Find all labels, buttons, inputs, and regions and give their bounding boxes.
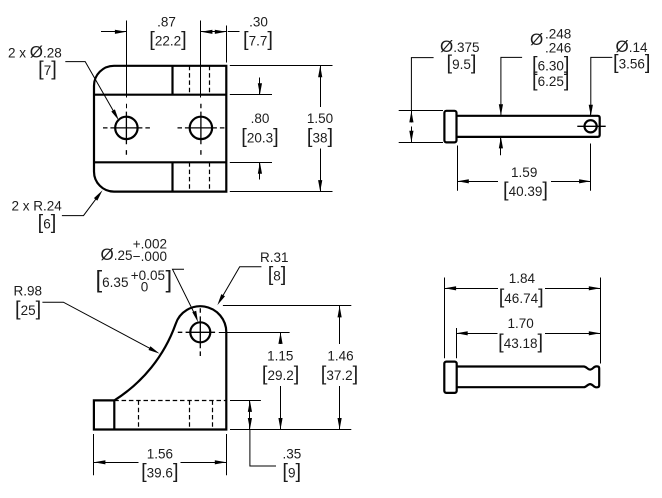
dim 1.70 extension line bbox=[456, 328, 458, 358]
svg-text:1.59: 1.59 bbox=[511, 165, 537, 180]
view 1 lower edge line bbox=[94, 161, 226, 163]
view 1 top band hidden line a bbox=[189, 66, 191, 95]
dim .30 dimension line and arrows bbox=[201, 31, 226, 33]
svg-text:Ø.14: Ø.14 bbox=[616, 37, 648, 56]
dim .80 extension lines bbox=[230, 94, 272, 96]
svg-text:[20.3]: [20.3] bbox=[241, 126, 278, 148]
svg-text:[9.5]: [9.5] bbox=[447, 53, 477, 75]
svg-text:[22.2]: [22.2] bbox=[149, 29, 186, 51]
view 2: pin head bbox=[444, 111, 456, 143]
label R.98 leader bbox=[42, 302, 156, 352]
svg-text:[25]: [25] bbox=[15, 299, 41, 321]
dim .35 dimension line and arrows bbox=[249, 400, 251, 429]
svg-text:1.56: 1.56 bbox=[147, 447, 173, 462]
svg-text:[39.6]: [39.6] bbox=[141, 461, 178, 483]
svg-text:[6.35: [6.35 bbox=[96, 266, 129, 293]
dim 1.59 right extension / centerline bbox=[590, 144, 592, 191]
dim .87 extension line left bbox=[126, 21, 128, 98]
dim dia .375 extension lines bbox=[399, 110, 443, 112]
dim .35 extension line bbox=[230, 400, 261, 402]
dim .35 leader and text bbox=[250, 430, 276, 467]
svg-text:[38]: [38] bbox=[307, 126, 333, 148]
svg-text:[37.2]: [37.2] bbox=[321, 364, 358, 386]
svg-text:[29.2]: [29.2] bbox=[262, 364, 299, 386]
dim 1.84 dimension line and arrows bbox=[445, 288, 498, 290]
view 1 bottom band hidden line a bbox=[189, 162, 191, 191]
label R.31 leader bbox=[220, 267, 261, 300]
hole H2 right bbox=[190, 117, 212, 139]
dim 1.50 dimension line and arrows bbox=[320, 66, 322, 107]
view 3 base hidden top line bbox=[114, 400, 226, 402]
dim dia .248 arrows outside bbox=[501, 57, 522, 115]
dim 1.56 dimension line and arrows bbox=[94, 462, 139, 464]
svg-text:[46.74]: [46.74] bbox=[499, 287, 544, 309]
dim dia .375 dimension line and arrows bbox=[411, 111, 413, 123]
svg-text:.87: .87 bbox=[157, 15, 176, 30]
svg-text:0: 0 bbox=[141, 279, 149, 294]
view 4: pin shaft with groove bbox=[457, 366, 600, 387]
svg-text:[7]: [7] bbox=[38, 59, 57, 81]
view 3: bracket profile outline bbox=[94, 306, 226, 429]
hole H1 left bbox=[115, 117, 137, 139]
dim 1.15 dimension line and arrows bbox=[280, 332, 282, 344]
svg-text:[43.18]: [43.18] bbox=[498, 332, 543, 354]
view 3 base visible edge bbox=[113, 400, 115, 429]
label 2 x dia .28 leader bbox=[65, 62, 116, 116]
dim dia .375 leader bbox=[411, 58, 433, 111]
view 3 bottom extension line bbox=[230, 429, 351, 431]
dim 1.59 left extension line bbox=[457, 146, 459, 191]
dim dia .14 leader bbox=[591, 57, 613, 105]
view 3 hole centerlines bbox=[178, 308, 215, 356]
svg-text:.35: .35 bbox=[283, 447, 302, 462]
svg-text:R.98: R.98 bbox=[14, 283, 43, 298]
dim 1.46 top extension line bbox=[223, 305, 351, 307]
view 1 bottom band slot edge bbox=[171, 162, 173, 191]
label dia .25 leader bbox=[173, 269, 197, 317]
svg-text:[6]: [6] bbox=[38, 212, 57, 234]
svg-text:.248: .248 bbox=[545, 26, 571, 41]
svg-text:1.84: 1.84 bbox=[509, 271, 536, 286]
view 2: pin hole centerline bbox=[577, 125, 605, 127]
view 1 top band hidden line b bbox=[209, 66, 211, 95]
svg-text:Ø.25: Ø.25 bbox=[101, 245, 133, 264]
dim 1.84 extension lines bbox=[444, 278, 446, 359]
svg-text:.30: .30 bbox=[249, 15, 268, 30]
dim .80 arrows outside bbox=[259, 78, 261, 95]
svg-text:1.15: 1.15 bbox=[267, 348, 293, 363]
dim 1.46 dimension line and arrows bbox=[339, 306, 341, 344]
view 1 bottom band hidden line b bbox=[209, 162, 211, 191]
svg-text:1.70: 1.70 bbox=[507, 316, 533, 331]
view 3 base hidden verticals bbox=[138, 400, 140, 429]
svg-text:1.50: 1.50 bbox=[307, 111, 333, 126]
dim 1.15 extension line from hole center bbox=[219, 332, 290, 334]
view 1 upper edge line bbox=[94, 94, 226, 96]
svg-text:]: ] bbox=[166, 266, 173, 293]
dim .30 extension line outer bbox=[226, 26, 228, 63]
dim 1.59 dimension line and arrows bbox=[457, 181, 498, 183]
hole H1 centerlines bbox=[103, 112, 150, 155]
dim .87 dimension line and arrows bbox=[101, 31, 126, 33]
view 1 top band slot edge bbox=[171, 66, 173, 95]
svg-text:[8]: [8] bbox=[268, 264, 287, 286]
dim 1.56 extension lines bbox=[93, 434, 95, 475]
dim 1.70 dimension line and arrows bbox=[456, 333, 497, 335]
view 3 hole bbox=[190, 322, 210, 342]
hole H2 centerlines bbox=[178, 104, 225, 155]
svg-text:−.000: −.000 bbox=[133, 249, 167, 264]
svg-text:[9]: [9] bbox=[282, 461, 301, 483]
svg-text:R.31: R.31 bbox=[260, 250, 289, 265]
view 2: pin shaft bbox=[457, 116, 600, 137]
dim .87 extension line right bbox=[200, 21, 202, 98]
label 2 x R.24 leader bbox=[62, 194, 100, 216]
view 2: pin hole bbox=[585, 120, 597, 132]
svg-text:.80: .80 bbox=[251, 111, 270, 126]
svg-text:[40.39]: [40.39] bbox=[503, 180, 548, 202]
svg-text:Ø: Ø bbox=[530, 30, 543, 49]
dim 1.50 extension lines bbox=[230, 65, 333, 67]
view 1: bracket top view outline bbox=[94, 66, 226, 192]
svg-text:1.46: 1.46 bbox=[327, 348, 353, 363]
view 4: pin head bbox=[444, 362, 456, 393]
svg-text:[7.7]: [7.7] bbox=[243, 29, 273, 51]
